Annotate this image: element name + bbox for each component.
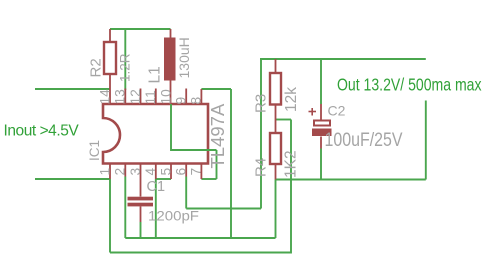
capacitor C1 lead bottom bbox=[140, 206, 142, 222]
svg-text:4: 4 bbox=[143, 168, 158, 176]
pin 1 stub bbox=[109, 164, 111, 179]
svg-text:Out 13.2V/ 500ma max: Out 13.2V/ 500ma max bbox=[337, 75, 482, 95]
wire C1 bottom down bbox=[140, 222, 142, 238]
pin 7 stub bbox=[200, 164, 202, 179]
svg-text:R2: R2 bbox=[88, 58, 105, 77]
pin 3 stub and C1 lead top bbox=[140, 164, 142, 197]
svg-text:C2: C2 bbox=[328, 103, 346, 119]
resistor R3 lead top bbox=[275, 59, 277, 73]
svg-text:3: 3 bbox=[128, 168, 143, 176]
wire pin2 down bbox=[124, 177, 126, 239]
wire pin13 riser bbox=[124, 29, 126, 90]
inductor L1 body bbox=[164, 38, 176, 81]
wire pin1 down bbox=[109, 179, 111, 253]
wire input minus horizontal bbox=[35, 178, 110, 180]
capacitor C2 plate bottom filled bbox=[312, 129, 332, 137]
svg-text:9: 9 bbox=[174, 97, 189, 105]
wire feedback junction right bbox=[276, 119, 292, 121]
wire pin10 to pin7 through body bbox=[171, 104, 217, 150]
svg-text:130uH: 130uH bbox=[176, 37, 192, 78]
svg-text:L1: L1 bbox=[147, 66, 164, 83]
svg-text:R3: R3 bbox=[253, 94, 270, 113]
svg-text:R4: R4 bbox=[253, 158, 270, 177]
svg-text:13: 13 bbox=[113, 89, 128, 105]
resistor R3 R4 link bbox=[275, 105, 277, 134]
wire pin4 pin5 link bbox=[156, 178, 171, 180]
pin 9 stub bbox=[185, 89, 187, 104]
wire C2 bottom down bbox=[320, 149, 322, 180]
pin 8 stub bbox=[200, 89, 202, 104]
wire pin7 right bbox=[201, 178, 216, 180]
pin 13 stub bbox=[124, 89, 126, 104]
capacitor C2 lead top bbox=[320, 104, 322, 120]
wire bottom right horizontal bbox=[276, 179, 426, 181]
svg-text:100uF/25V: 100uF/25V bbox=[325, 130, 403, 151]
wire input plus horizontal bbox=[35, 88, 110, 90]
svg-text:8: 8 bbox=[189, 97, 204, 105]
svg-text:6: 6 bbox=[174, 168, 189, 176]
op IC1 body TL497A bbox=[103, 104, 208, 164]
capacitor C2 lead bottom bbox=[320, 137, 322, 149]
wire ground bus A bbox=[125, 237, 275, 239]
svg-text:1200pF: 1200pF bbox=[148, 209, 199, 225]
svg-text:1: 1 bbox=[97, 168, 112, 176]
capacitor C1 plate top bbox=[128, 197, 154, 201]
svg-text:14: 14 bbox=[97, 89, 112, 105]
pin 6 stub bbox=[185, 164, 187, 177]
wire feedback down bbox=[290, 120, 292, 254]
svg-text:11: 11 bbox=[143, 90, 158, 104]
svg-text:5: 5 bbox=[158, 168, 173, 176]
wire out rail bbox=[260, 58, 426, 60]
resistor R2 lead bottom and pin 14 bbox=[109, 74, 111, 104]
wire top rail R2 to L1 bbox=[110, 28, 171, 30]
svg-text:1K2: 1K2 bbox=[283, 150, 300, 178]
wire pin7 jog vertical bbox=[216, 150, 218, 179]
wire pin8 down bbox=[230, 89, 232, 238]
svg-text:TL497A: TL497A bbox=[207, 103, 228, 168]
svg-text:2: 2 bbox=[113, 168, 128, 176]
pin 4 stub bbox=[155, 164, 157, 179]
svg-text:10: 10 bbox=[158, 89, 173, 105]
capacitor C1 plate bottom bbox=[128, 203, 154, 207]
wire out right riser bbox=[425, 101, 427, 180]
pin 2 stub bbox=[124, 164, 126, 177]
wire pin6 right bbox=[186, 208, 261, 210]
resistor R2 lead top bbox=[109, 29, 111, 42]
capacitor C2 plus sign bbox=[309, 108, 317, 116]
resistor R2 body bbox=[104, 42, 116, 74]
wire C2 top riser bbox=[320, 59, 322, 104]
pin 11 stub bbox=[155, 89, 157, 104]
wire riser to out rail bbox=[260, 59, 262, 209]
resistor R4 lead bottom bbox=[275, 164, 277, 180]
svg-text:1.2R: 1.2R bbox=[118, 53, 133, 82]
pin 12 stub bbox=[140, 89, 142, 104]
wire pin8 right bbox=[201, 88, 231, 90]
resistor R4 body bbox=[270, 133, 281, 164]
resistor R3 body bbox=[270, 73, 281, 105]
svg-text:Inout >4.5V: Inout >4.5V bbox=[4, 123, 80, 140]
wire pin6 down bbox=[185, 177, 187, 209]
svg-text:12: 12 bbox=[128, 89, 143, 104]
wire feedback bus B bbox=[110, 252, 291, 254]
capacitor C2 plate top outline bbox=[314, 121, 330, 126]
inductor L1 lead top bbox=[170, 29, 172, 38]
wire R4 bottom down bbox=[275, 180, 277, 239]
inductor L1 lead bottom and pin 10 bbox=[170, 81, 172, 104]
pin 5 stub bbox=[170, 164, 172, 179]
svg-text:C1: C1 bbox=[147, 179, 166, 195]
svg-text:7: 7 bbox=[189, 168, 204, 176]
svg-text:IC1: IC1 bbox=[87, 140, 102, 161]
svg-text:12k: 12k bbox=[283, 87, 300, 112]
wire pin4 down bbox=[155, 179, 157, 238]
